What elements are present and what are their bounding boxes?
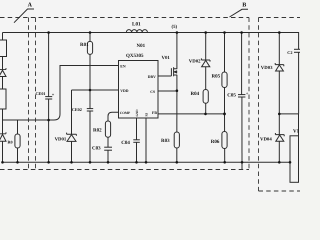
wire left mid horizontal xyxy=(3,66,119,121)
svg-text:COMP: COMP xyxy=(120,111,130,115)
svg-text:+: + xyxy=(246,91,249,96)
diode VD02 xyxy=(201,33,210,114)
transistor V01 MOSFET xyxy=(171,33,177,91)
svg-text:QX5305: QX5305 xyxy=(126,53,144,59)
svg-text:C04: C04 xyxy=(121,140,130,146)
svg-text:EN: EN xyxy=(120,64,126,68)
svg-text:VD02: VD02 xyxy=(189,59,201,65)
capacitor CE02 xyxy=(87,90,93,162)
resistor R0 (left bottom) xyxy=(15,120,20,162)
svg-text:C03: C03 xyxy=(92,146,101,152)
wire left rail vertical xyxy=(2,33,4,163)
wire bottom bus xyxy=(3,161,291,163)
capacitor CE01 xyxy=(45,33,52,163)
svg-text:V1: V1 xyxy=(293,129,300,135)
svg-text:C2: C2 xyxy=(287,50,292,55)
svg-text:V01: V01 xyxy=(162,55,171,61)
svg-text:R01: R01 xyxy=(80,42,89,48)
IC pin labels xyxy=(120,64,158,116)
inductor L01 xyxy=(126,30,147,33)
wire load drop xyxy=(298,114,300,136)
resistor R03 xyxy=(174,91,179,162)
svg-text:CE02: CE02 xyxy=(72,107,82,112)
diode input clipped (lower) xyxy=(0,132,6,141)
svg-text:R04: R04 xyxy=(191,91,200,97)
svg-text:R02: R02 xyxy=(93,128,102,134)
svg-text:L01: L01 xyxy=(132,21,141,27)
diode VD03 xyxy=(275,33,284,114)
svg-text:R0: R0 xyxy=(8,139,13,144)
label leader A xyxy=(14,9,34,23)
svg-text:N01: N01 xyxy=(137,43,146,49)
resistor R01 xyxy=(87,33,92,91)
op-amp U1 : IC N01 QX5305 box xyxy=(119,61,159,119)
dashed box B xyxy=(259,18,301,192)
diode VD04 xyxy=(275,114,284,162)
wire COMP elbow + resistor R02 + capacitor C03 xyxy=(104,112,118,162)
capacitor C04 xyxy=(133,140,140,163)
svg-text:VD01: VD01 xyxy=(55,137,67,143)
resistor R05 xyxy=(222,33,227,114)
wire RI pin xyxy=(145,118,147,162)
dashed enclosure top line xyxy=(0,17,249,19)
svg-text:VD03: VD03 xyxy=(261,65,273,71)
svg-text:B: B xyxy=(242,2,246,8)
svg-text:FB: FB xyxy=(152,111,157,115)
wire output node horizontal xyxy=(279,113,298,115)
dashed divider line xyxy=(28,18,30,170)
resistor R04 xyxy=(203,90,208,104)
svg-text:R03: R03 xyxy=(161,138,170,144)
wire DRV to gate xyxy=(158,75,171,77)
dashed box A xyxy=(0,18,249,170)
box input lower (component box) xyxy=(0,89,6,109)
svg-text:A: A xyxy=(28,3,33,9)
wire FB horizontal xyxy=(158,113,225,115)
wire GND pin xyxy=(136,118,138,140)
label leader B xyxy=(230,9,249,17)
svg-text:R05: R05 xyxy=(212,73,221,79)
wire VDD horizontal xyxy=(72,89,119,91)
svg-text:VDD: VDD xyxy=(120,89,128,93)
capacitor C05 xyxy=(238,33,245,170)
svg-text:CS: CS xyxy=(150,90,155,94)
wire top bus xyxy=(3,32,299,34)
svg-text:(5): (5) xyxy=(172,24,178,30)
svg-text:CE01: CE01 xyxy=(36,91,46,96)
resistor FU1 (input series box) xyxy=(0,40,7,57)
svg-text:R06: R06 xyxy=(211,139,220,145)
svg-text:GND: GND xyxy=(135,109,139,117)
resistor R06 xyxy=(222,114,227,162)
wire CS horizontal xyxy=(158,90,177,92)
load box V1 xyxy=(290,136,299,183)
diode VD01 xyxy=(67,90,77,162)
svg-text:C05: C05 xyxy=(227,92,236,98)
svg-text:DRV: DRV xyxy=(148,75,156,79)
capacitor C2 right edge xyxy=(294,32,300,114)
diode input clipped (upper) xyxy=(0,68,6,77)
svg-text:VD04: VD04 xyxy=(260,136,272,142)
